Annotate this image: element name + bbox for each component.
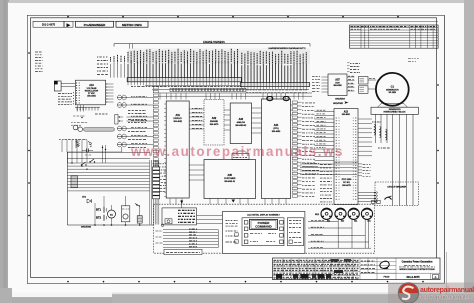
svg-text:300-4081-01: 300-4081-01	[224, 181, 235, 183]
svg-text:A31: A31	[341, 220, 344, 223]
sheet cell	[433, 275, 439, 279]
wires from connectors down to engine	[121, 147, 123, 152]
exciter terminal block E1	[359, 77, 369, 85]
svg-text:CUSTOMER: CUSTOMER	[224, 178, 236, 180]
svg-text:Cummins Power Generation: Cummins Power Generation	[402, 261, 433, 264]
relay to display panel wires	[197, 215, 223, 217]
fuel solenoid component	[71, 176, 78, 188]
logo badge S swirl	[402, 287, 414, 299]
inline connector P13/J13	[117, 126, 126, 131]
svg-text:A35: A35	[228, 174, 233, 177]
svg-text:(CPU): (CPU)	[273, 128, 279, 130]
inline connector P11/J11	[117, 95, 126, 100]
engine wire rows	[67, 162, 149, 164]
generator mount trapezoid	[378, 103, 408, 107]
svg-text:A16: A16	[89, 84, 94, 87]
svg-text:ANALOG: ANALOG	[237, 121, 246, 124]
cummins logo cell	[395, 258, 397, 273]
svg-text:A33: A33	[239, 118, 244, 121]
sheet note text column	[35, 51, 42, 53]
svg-text:300-4080-02: 300-4080-02	[235, 125, 246, 127]
svg-text:PCC 3100: PCC 3100	[342, 179, 352, 181]
revision table	[350, 25, 439, 48]
inline connector P14/J14	[117, 134, 126, 139]
engine area ground bus	[67, 224, 154, 226]
circuit breaker enclosure	[375, 182, 419, 206]
svg-text:301-2-6675: 301-2-6675	[406, 275, 420, 279]
svg-text:BT1: BT1	[96, 208, 102, 212]
panel feed vertical	[217, 230, 219, 248]
wires battery area vertical	[103, 196, 105, 207]
revision table first entry text	[351, 28, 361, 30]
wire labels column mid-left	[128, 110, 146, 112]
bundle ink shading	[128, 50, 310, 80]
relay area left labels	[156, 230, 163, 232]
wires blocks to generator	[368, 79, 376, 81]
svg-text:autorepairmanuals: autorepairmanuals	[420, 287, 474, 294]
A16 pin dots left	[76, 82, 77, 83]
A31 left pin ticks	[164, 103, 166, 105]
generator top labels	[408, 58, 419, 60]
wires right strip to A13	[315, 111, 335, 113]
ground symbol right	[88, 142, 92, 147]
svg-text:COMMAND: COMMAND	[255, 225, 272, 229]
svg-text:CIRCUIT BREAKER: CIRCUIT BREAKER	[387, 186, 406, 189]
fscm and drawing number row	[376, 273, 378, 279]
zone tick marks bottom border	[67, 281, 69, 283]
capacitor C1	[86, 149, 88, 153]
inter-module wires A34-right strip	[291, 104, 293, 106]
title text rows	[360, 272, 440, 274]
panel left section text	[226, 220, 238, 222]
descend wires from logic area to engine	[102, 145, 104, 163]
header cell drawing number 301-2-6675	[33, 21, 64, 27]
power comb bus	[75, 106, 100, 108]
A37 left pins	[322, 76, 329, 78]
engine upper wires	[67, 151, 150, 153]
terminal label dashes under strip 2	[246, 89, 308, 91]
enclosure top connector boxes	[372, 200, 376, 203]
CT labels	[372, 121, 381, 123]
toggle switch S1	[82, 162, 86, 165]
relay K1 with solid corner	[54, 81, 61, 91]
svg-text:METRIC DWG: METRIC DWG	[122, 23, 142, 27]
wires K1 to A16	[61, 83, 75, 85]
svg-text:www.autorepairmanuals.ws: www.autorepairmanuals.ws	[130, 144, 344, 159]
engine area boundary left wire	[66, 152, 68, 225]
terminal bracket TB1	[115, 115, 118, 125]
panel right section	[287, 218, 303, 246]
faceplate small labels	[250, 233, 262, 235]
svg-text:GENERATOR: GENERATOR	[386, 88, 399, 91]
svg-text:GOV: GOV	[335, 82, 340, 84]
svg-text:INTERCONNECT BLOCK: INTERCONNECT BLOCK	[384, 112, 407, 114]
control panel dashed enclosure	[154, 204, 375, 253]
module A35 customer interface	[204, 160, 256, 199]
right strip wire labels	[297, 101, 301, 103]
harness cable thick run	[84, 128, 115, 132]
A35 drop junction arrow	[180, 201, 183, 204]
svg-text:SC 301: SC 301	[343, 182, 351, 184]
svg-text:300-4079: 300-4079	[210, 124, 219, 126]
svg-text:A37: A37	[335, 79, 340, 82]
svg-text:300-4082: 300-4082	[87, 96, 96, 98]
top bus wires	[145, 85, 240, 87]
terminal box A13	[334, 109, 358, 205]
exciter terminal block E2	[359, 86, 369, 94]
terminal number row under connector strips	[170, 88, 246, 91]
diode CR1	[87, 199, 92, 203]
meter M11	[321, 208, 332, 219]
A13 internal pin dots	[336, 118, 337, 119]
meter drop wires	[338, 219, 368, 248]
approval column	[367, 258, 369, 273]
module A34 CPU board	[262, 99, 291, 199]
title block parts grid rows	[273, 262, 361, 264]
circuit breaker symbol	[385, 197, 392, 199]
svg-text:A21: A21	[327, 220, 330, 223]
svg-text:301-2-6675: 301-2-6675	[42, 23, 56, 27]
inline connector P12/J12	[117, 103, 126, 108]
svg-text:GND/PWR: GND/PWR	[333, 103, 344, 105]
svg-text:300-4083: 300-4083	[272, 131, 281, 133]
meter M31	[348, 208, 359, 219]
header cell METRIC DWG	[116, 21, 148, 27]
bracket component	[75, 139, 77, 148]
A35 top connector symbol	[232, 154, 249, 160]
module A31 display board	[166, 101, 189, 198]
meter M41	[361, 208, 372, 219]
svg-text:A41: A41	[354, 220, 357, 223]
wires A31 to A35 zone	[189, 164, 204, 166]
digital display assembly A11 outline	[222, 212, 305, 254]
A13 left side entry labels	[320, 164, 332, 166]
bus drop wires into logic boxes	[160, 93, 303, 100]
starter motor B1	[108, 210, 116, 218]
left small wire group	[110, 64, 112, 78]
circuit breaker CB1 cluster	[73, 125, 78, 130]
connector strip J2	[240, 83, 309, 87]
A16 right pin stubs	[106, 83, 114, 85]
starter solenoid K2	[121, 206, 130, 222]
toggle switch S2	[90, 159, 94, 162]
zone tick marks left border	[28, 52, 30, 54]
A16 lower-left wire labels	[58, 93, 72, 95]
flow arrow at A35 bottom	[232, 200, 236, 203]
svg-text:Pro/ENGINEER: Pro/ENGINEER	[84, 23, 106, 27]
meter M21	[335, 208, 346, 219]
relay area lower wires	[163, 229, 218, 231]
junction dots battery bus	[94, 224, 96, 226]
A13 right side wires to CT area	[358, 118, 372, 120]
svg-text:G1: G1	[391, 84, 395, 88]
GND BAT label	[95, 113, 107, 115]
title block outline	[273, 258, 441, 280]
svg-text:300-4098: 300-4098	[334, 85, 342, 87]
inter-module wires A32-A33	[224, 109, 230, 111]
inter-module wires A33-A34	[252, 107, 262, 109]
svg-text:DISPLAY: DISPLAY	[174, 117, 183, 120]
svg-text:REGULATOR: REGULATOR	[85, 89, 99, 92]
header cell Pro/ENGINEER	[76, 21, 114, 27]
svg-text:GND/ENG: GND/ENG	[81, 226, 92, 228]
wires below A13	[300, 163, 357, 165]
outer border frame	[27, 15, 444, 283]
svg-text:FSCM: FSCM	[384, 277, 390, 279]
generator output wires	[376, 114, 414, 183]
display faceplate	[242, 218, 284, 246]
svg-text:ENGINE: ENGINE	[210, 121, 218, 123]
svg-text:VOLTAGE: VOLTAGE	[86, 87, 97, 90]
meter feed wires	[308, 221, 338, 223]
aux component	[136, 204, 137, 205]
svg-text:A11 DIGITAL DISPLAY ASSEMBLY: A11 DIGITAL DISPLAY ASSEMBLY	[247, 213, 280, 216]
svg-text:300-4080: 300-4080	[342, 114, 350, 116]
right terminal strip of control board	[292, 101, 297, 197]
connector to board wires with labels	[127, 97, 154, 99]
svg-text:A13: A13	[344, 110, 349, 113]
left bundle terminal labels	[97, 56, 107, 58]
current transformer CT22	[380, 127, 381, 138]
A34 top oval pads	[267, 97, 273, 101]
zone tick marks right border	[437, 84, 439, 86]
faceplate buttons left column	[244, 221, 248, 225]
svg-text:300-4079: 300-4079	[342, 185, 351, 187]
relay coil symbol	[165, 219, 172, 224]
title block parts grid verticals	[282, 258, 284, 280]
svg-text:GND/ENG: GND/ENG	[335, 99, 345, 101]
module A33 analog board	[230, 103, 251, 144]
current transformer CT21	[374, 124, 375, 135]
relay logic box K11	[162, 208, 197, 225]
junction dots engine rows	[102, 147, 103, 148]
wires descending from A16	[77, 105, 79, 112]
A37 right pins	[347, 76, 355, 78]
svg-text:300-4082: 300-4082	[173, 121, 182, 123]
logo badge circle	[398, 283, 418, 303]
left terminal strip of control board	[153, 87, 158, 198]
svg-text:A32: A32	[212, 117, 217, 120]
inner border frame	[31, 18, 437, 278]
generator G1	[376, 73, 409, 106]
engine harness vertical bundle	[150, 160, 159, 225]
current transformer CT23	[386, 129, 387, 140]
svg-text:A31: A31	[176, 114, 181, 117]
ground stub row	[59, 138, 87, 140]
svg-text:ENGINE HARNESS: ENGINE HARNESS	[203, 41, 225, 44]
generator interconnect block	[371, 107, 418, 114]
svg-text:BT2: BT2	[96, 216, 102, 220]
svg-text:autorepairmanuals.ws: autorepairmanuals.ws	[419, 294, 474, 301]
revision table header text	[351, 26, 409, 28]
A13 right wires with TB labels	[358, 163, 362, 165]
relay aux contact	[161, 224, 164, 227]
wire bundle 1 vertical wires with labels	[128, 49, 238, 78]
title block parts text	[274, 259, 359, 261]
ground symbol left	[76, 142, 80, 147]
labels right of bundle2 top	[350, 63, 360, 65]
panel left small squares	[235, 233, 238, 236]
voltage regulator A16	[75, 80, 105, 105]
title block heavy cells	[276, 274, 282, 278]
logo banner background	[388, 283, 474, 303]
relay label stack	[178, 209, 195, 211]
stub wires from modules to lower dashed box	[170, 199, 286, 205]
right fold line	[443, 15, 445, 283]
heater resistor	[137, 216, 142, 223]
harness bracket line	[114, 43, 310, 45]
header cell revision marker	[64, 21, 73, 27]
header band line	[33, 20, 438, 22]
A13 lower wires to breaker connector	[358, 192, 374, 194]
bracket feed stubs	[129, 44, 131, 49]
svg-text:A34: A34	[274, 124, 279, 127]
wire bundle 2 vertical wires with labels	[242, 51, 306, 83]
inter-module wires A31-A32	[189, 108, 204, 110]
inline connector stack	[153, 167, 160, 199]
svg-text:3Φ GEN: 3Φ GEN	[388, 91, 396, 94]
inline connector P15/J15	[117, 142, 126, 147]
module A37 aux board	[328, 74, 347, 96]
note box at enclosure bottom	[164, 249, 202, 254]
connector strip J1	[127, 78, 241, 82]
second label column right of strip	[317, 109, 326, 111]
POWER COMMAND display window	[250, 219, 278, 229]
svg-text:WIRING DIAGRAM SYSTEM PCC3100: WIRING DIAGRAM SYSTEM PCC3100	[399, 268, 435, 271]
zone tick marks top border	[67, 16, 69, 18]
breaker internal wires	[392, 184, 394, 206]
module A32 dashed	[204, 100, 224, 146]
wire tag dashes below strip 1	[131, 86, 241, 88]
svg-text:A51: A51	[367, 220, 370, 223]
faceplate buttons right column	[280, 221, 284, 225]
